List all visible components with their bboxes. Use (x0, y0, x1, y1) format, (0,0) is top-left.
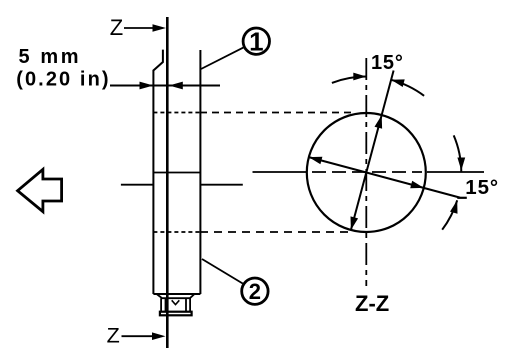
sensor nut outer left (160, 298, 162, 311)
arrowhead of Z bottom leader (152, 332, 166, 340)
svg-text:Z-Z: Z-Z (355, 291, 389, 316)
arrowhead of Z top leader (153, 24, 167, 32)
vertical center line of section (365, 58, 367, 286)
right angle arc upper (454, 135, 462, 172)
arrowhead shallow diagonal right (410, 181, 424, 189)
callout circle 2 (242, 278, 268, 304)
dimension line 5 mm (110, 85, 220, 87)
leader line to callout 1 (201, 48, 243, 69)
extension tick at end of shallow diagonal (457, 197, 467, 199)
bracket bottom edge (153, 293, 200, 295)
arrowhead shallow diagonal left (309, 157, 323, 165)
hole center line left stub (121, 184, 153, 186)
horizontal center line right segment (427, 171, 484, 173)
chamfer below bracket (157, 294, 195, 298)
svg-text:(0.20 in): (0.20 in) (16, 68, 110, 90)
arrowhead steep diagonal top (375, 115, 383, 129)
horizontal center line middle dashes (312, 171, 422, 173)
bottom dashed projection line outer (200, 231, 351, 233)
top angle arc right (391, 80, 424, 96)
V notch on nut (172, 300, 180, 304)
sensor nut inner right (185, 298, 187, 311)
arrowhead top arc at vertical line (353, 73, 366, 81)
svg-text:Z: Z (110, 15, 123, 40)
horizontal center line left segment (253, 171, 308, 173)
bracket inner line (153, 172, 200, 174)
svg-text:1: 1 (249, 27, 263, 57)
top angle arc left (332, 77, 366, 83)
arrowhead right arc at horizontal line (457, 158, 465, 171)
svg-text:5 mm: 5 mm (19, 46, 82, 68)
bottom dashed projection line inner (153, 231, 200, 233)
dimension arrow pointing left at section line (169, 82, 183, 90)
bracket left edge with jog (153, 50, 163, 294)
sensor nut outer right (189, 298, 191, 311)
leader line to section plane Z bottom (122, 335, 153, 337)
section view circle (307, 113, 426, 232)
dimension arrow pointing right at bracket surface (140, 82, 154, 90)
sensor nut inner left (165, 298, 167, 311)
svg-text:Z: Z (107, 323, 120, 347)
svg-text:2: 2 (249, 279, 261, 304)
svg-text:15°: 15° (465, 176, 499, 199)
steep diagonal 15 deg from vertical (351, 71, 394, 231)
shallow diagonal 15 deg from horizontal (309, 157, 460, 198)
leader line to callout 2 (202, 259, 243, 284)
arrowhead right arc at diagonal (450, 200, 458, 214)
top dashed projection line outer (200, 112, 352, 114)
svg-text:15°: 15° (371, 52, 404, 74)
top dashed projection line inner (153, 112, 200, 114)
arrowhead steep diagonal bottom (351, 216, 359, 230)
bracket right edge (199, 50, 201, 294)
leader line to section plane Z top (124, 27, 156, 29)
arrowhead top arc at diagonal (391, 79, 405, 87)
flow direction arrow (18, 169, 62, 211)
hole center line right stub (200, 184, 242, 186)
right angle arc lower (442, 200, 457, 229)
section line Z (vertical flange surface) (166, 17, 169, 348)
callout circle 1 (243, 28, 269, 54)
sensor flange (160, 312, 192, 316)
